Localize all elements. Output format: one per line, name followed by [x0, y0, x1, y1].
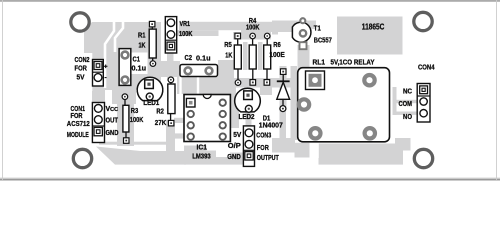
- capacitor C1: [119, 49, 131, 86]
- svg-text:1K: 1K: [225, 52, 232, 59]
- svg-text:ACS712: ACS712: [67, 121, 90, 128]
- svg-text:C2: C2: [185, 55, 193, 62]
- svg-text:0.1u: 0.1u: [196, 55, 211, 62]
- wire trace D1 T1 top: [278, 21, 316, 30]
- svg-text:11865C: 11865C: [362, 22, 385, 31]
- wire stub left of IC1 pin4: [174, 133, 184, 138]
- wire bottom band left wedge: [96, 147, 140, 165]
- svg-text:NC: NC: [403, 89, 412, 96]
- white channel in pour 1: [105, 22, 114, 88]
- border frame right: [495, 0, 498, 181]
- svg-text:D1: D1: [263, 115, 271, 122]
- svg-text:LED2: LED2: [239, 114, 255, 121]
- resistor R2: [168, 77, 175, 126]
- svg-text:R3: R3: [131, 108, 139, 115]
- svg-text:5V: 5V: [77, 75, 85, 82]
- diode D1 1N4007: [277, 69, 290, 112]
- wire bottom band under IC1: [184, 146, 216, 165]
- svg-text:T1: T1: [314, 26, 321, 33]
- svg-text:FOR: FOR: [71, 113, 83, 120]
- wire trace CON4 NO stub: [393, 112, 418, 115]
- white notch right of IC1: [207, 143, 218, 151]
- svg-text:VCC: VCC: [106, 106, 119, 113]
- svg-text:R2: R2: [156, 109, 164, 116]
- svg-text:MODULE: MODULE: [67, 132, 89, 139]
- svg-text:OUTPUT: OUTPUT: [257, 155, 280, 162]
- svg-text:CON1: CON1: [71, 106, 86, 113]
- LED2: [235, 88, 261, 112]
- svg-text:C1: C1: [133, 56, 141, 63]
- connector CON3: [243, 126, 254, 166]
- wire bottom band right tail: [395, 138, 411, 151]
- svg-text:100E: 100E: [269, 52, 285, 59]
- wire bottom band under relay left: [295, 143, 310, 158]
- svg-text:5V: 5V: [233, 132, 241, 139]
- svg-text:0.1u: 0.1u: [132, 66, 147, 73]
- wire trace right of LED2: [260, 87, 272, 95]
- svg-text:CON2: CON2: [75, 57, 90, 64]
- svg-text:LM393: LM393: [192, 153, 211, 160]
- resistor R3: [122, 94, 129, 143]
- border frame left: [1, 0, 4, 181]
- white channel in pour 2: [115, 22, 123, 52]
- wire trace T1 to relay: [298, 45, 310, 70]
- border frame bottom: [0, 178, 500, 179]
- svg-text:R6: R6: [273, 42, 281, 49]
- trimmer VR1: [165, 17, 176, 53]
- mounting hole top-right: [414, 12, 432, 30]
- wire trace VR1 to R2: [167, 50, 174, 81]
- svg-text:R1: R1: [138, 33, 146, 40]
- wire trace stub CON2 pin1: [108, 62, 119, 69]
- white channel under C2 a: [179, 77, 181, 94]
- connector CON4: [417, 84, 430, 123]
- resistor R5: [234, 33, 241, 85]
- svg-text:1K: 1K: [139, 42, 146, 49]
- mounting hole bottom-left: [73, 149, 91, 167]
- mounting hole top-left: [71, 13, 89, 31]
- wire trace left of relay: [291, 66, 298, 140]
- wire bottom band right: [319, 144, 404, 165]
- wire trace stub CON2 pin2: [108, 74, 119, 81]
- svg-text:100K: 100K: [246, 24, 260, 31]
- LED1: [137, 77, 163, 100]
- mounting hole bottom-right: [414, 149, 432, 167]
- svg-text:BC557: BC557: [314, 38, 332, 45]
- wire bottom band GND: [230, 153, 244, 162]
- svg-text:1N4007: 1N4007: [259, 123, 283, 130]
- relay RL1: [298, 68, 390, 142]
- wire trace CON2 to CON1: [92, 86, 105, 103]
- wire trace LED2 to CON3: [246, 110, 252, 127]
- svg-text:GND: GND: [227, 154, 241, 161]
- svg-text:FOR: FOR: [75, 66, 87, 73]
- svg-text:R5: R5: [224, 42, 232, 49]
- resistor R4: [249, 33, 256, 85]
- wire trace R2 to bottom band: [166, 120, 175, 153]
- wire trace left of LED2: [228, 87, 236, 118]
- svg-text:VR1: VR1: [180, 21, 191, 28]
- wire pour below R5 label: [218, 60, 234, 78]
- wire bottom band strip right of IC1: [216, 157, 244, 165]
- white channel bottom band: [310, 142, 319, 158]
- svg-text:LED1: LED1: [143, 100, 159, 107]
- wire trace D1 column: [280, 66, 287, 108]
- svg-text:100K: 100K: [130, 117, 144, 124]
- op-amp IC1 LM393: [184, 95, 230, 142]
- wire trace CON4 vertical: [393, 87, 397, 115]
- board background: [0, 0, 500, 181]
- svg-text:OUT: OUT: [106, 118, 119, 125]
- svg-text:5V,1CO RELAY: 5V,1CO RELAY: [331, 60, 375, 67]
- wire trace column R3: [117, 103, 134, 146]
- wire pour under C2: [177, 77, 230, 94]
- white channel under C2 b: [197, 77, 199, 94]
- white notch above GND: [236, 146, 244, 152]
- resistor R1: [149, 21, 156, 66]
- wire pour top-right 11865C: [337, 17, 403, 55]
- wire trace D1 to band: [280, 108, 287, 147]
- connector CON1: [92, 103, 104, 143]
- wire trace CON4 COM stub: [393, 100, 418, 103]
- wire pour mid-left: [112, 90, 136, 104]
- wire trace below VR1 label: [177, 30, 219, 36]
- capacitor C2: [180, 65, 218, 77]
- transistor T1 BC557: [292, 18, 311, 49]
- svg-text:GND: GND: [106, 130, 119, 137]
- svg-text:IC1: IC1: [197, 145, 208, 152]
- wire trace right of R6: [272, 21, 278, 35]
- svg-text:O/P: O/P: [228, 143, 241, 150]
- wire trace R5 R4 R6 top pads: [233, 32, 271, 40]
- wire copper pour upper-left: [84, 22, 161, 90]
- wire pour R4 label: [241, 26, 296, 32]
- wire pour left of C2: [158, 61, 180, 77]
- svg-text:RL1: RL1: [313, 60, 326, 67]
- svg-text:+: +: [104, 64, 108, 71]
- svg-text:CON4: CON4: [418, 64, 435, 71]
- wire trace VR1 to R4 top strip: [179, 22, 296, 30]
- svg-text:NO: NO: [403, 114, 412, 121]
- wire stub R2 to IC1 pin3: [174, 118, 184, 123]
- wire pour right of IC1: [231, 94, 239, 128]
- wire trace between R5 R4: [243, 42, 248, 70]
- svg-text:CON3: CON3: [256, 132, 271, 139]
- wire trace bottom pads row: [230, 78, 296, 88]
- connector CON2: [93, 60, 104, 87]
- wire bottom band left: [140, 151, 186, 165]
- wire bottom band right of CON3: [272, 138, 295, 153]
- resistor R6: [264, 33, 271, 85]
- wire trace CON1 to R2 thin strip: [99, 142, 168, 145]
- svg-text:FOR: FOR: [257, 145, 269, 152]
- border frame top: [0, 0, 500, 2]
- svg-text:100K: 100K: [179, 31, 193, 38]
- svg-text:COM: COM: [399, 101, 413, 108]
- white label zone C1: [131, 53, 148, 75]
- white label zone CON2: [83, 53, 92, 91]
- svg-text:27K: 27K: [155, 120, 167, 127]
- wire trace between R4 R6: [258, 42, 263, 70]
